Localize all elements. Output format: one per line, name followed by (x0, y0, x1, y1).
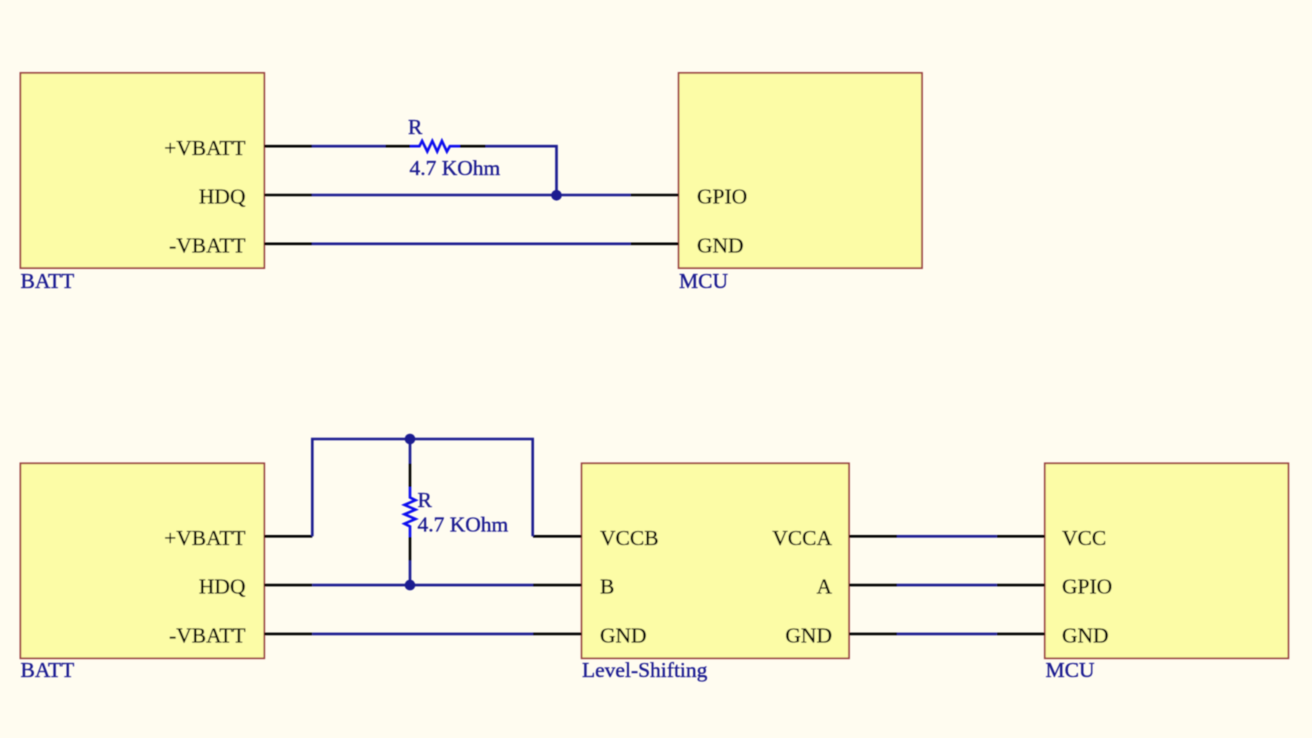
svg-text:B: B (600, 575, 614, 599)
svg-text:HDQ: HDQ (199, 185, 246, 209)
pin GND right of Level-Shifting (785, 624, 897, 648)
pin GPIO of top MCU (631, 185, 748, 209)
wire HDQ from BATT to MCU GPIO (top) (312, 194, 631, 197)
pin A of Level-Shifting (816, 575, 897, 599)
svg-text:-VBATT: -VBATT (169, 624, 245, 648)
svg-text:4.7 KOhm: 4.7 KOhm (410, 156, 501, 180)
resistor R (bottom, 4.7 KOhm, vertical) (405, 464, 416, 561)
svg-text:R: R (418, 488, 433, 512)
block BATT (top circuit) (20, 73, 264, 268)
wire resistor bottom stub (bottom) (409, 561, 412, 586)
block Level-Shifting (bottom circuit) (582, 463, 849, 658)
wire -VBATT to GND (bottom left) (312, 633, 533, 636)
svg-text:GPIO: GPIO (697, 185, 747, 209)
svg-text:GND: GND (785, 624, 832, 648)
wire VCCA to VCC (bottom right) (897, 535, 997, 538)
svg-text:HDQ: HDQ (199, 575, 246, 599)
junction node on top rail (bottom) (405, 434, 416, 445)
svg-text:R: R (408, 115, 423, 139)
svg-text:GPIO: GPIO (1062, 575, 1112, 599)
pin GND left of Level-Shifting (533, 624, 647, 648)
pin GND of bottom MCU (997, 624, 1109, 648)
resistor R (top, 4.7 KOhm) (386, 141, 486, 152)
svg-text:4.7 KOhm: 4.7 KOhm (418, 513, 509, 537)
svg-text:+VBATT: +VBATT (164, 526, 245, 550)
wire resistor to corner down to HDQ node (top) (486, 146, 557, 195)
block MCU (bottom circuit) (1045, 463, 1289, 658)
wire resistor top stub (bottom) (409, 439, 412, 464)
svg-text:BATT: BATT (21, 269, 75, 293)
svg-text:GND: GND (1062, 624, 1109, 648)
svg-text:+VBATT: +VBATT (164, 136, 245, 160)
wire +VBATT to resistor (top) (312, 145, 386, 148)
junction node on HDQ (bottom) (405, 580, 416, 591)
svg-text:GND: GND (600, 624, 647, 648)
pin B of Level-Shifting (533, 575, 614, 599)
wire A to GPIO (bottom right) (897, 584, 997, 587)
pin VCC of bottom MCU (997, 526, 1106, 550)
svg-text:BATT: BATT (21, 658, 75, 682)
pin +VBATT of top BATT (164, 136, 312, 160)
svg-text:VCCB: VCCB (600, 526, 659, 550)
pin HDQ of top BATT (199, 185, 312, 209)
pin -VBATT of top BATT (169, 233, 312, 257)
block BATT (bottom circuit) (20, 463, 264, 658)
pin GPIO of bottom MCU (997, 575, 1112, 599)
svg-text:VCC: VCC (1062, 526, 1106, 550)
pin GND of top MCU (631, 233, 744, 257)
svg-text:GND: GND (697, 233, 744, 257)
svg-text:MCU: MCU (679, 269, 728, 293)
wire HDQ to B (bottom) (312, 584, 533, 587)
svg-text:A: A (816, 575, 832, 599)
svg-text:Level-Shifting: Level-Shifting (582, 658, 708, 682)
svg-text:MCU: MCU (1046, 658, 1095, 682)
pin VCCB of Level-Shifting (533, 526, 659, 550)
wire GND to GND (bottom right) (897, 633, 997, 636)
svg-text:-VBATT: -VBATT (169, 233, 245, 257)
svg-text:VCCA: VCCA (772, 526, 832, 550)
pin +VBATT of bottom BATT (164, 526, 312, 550)
junction node on HDQ (top) (551, 190, 562, 201)
block MCU (top circuit) (679, 73, 922, 268)
pin HDQ of bottom BATT (199, 575, 312, 599)
wire +VBATT up across top rail down to VCCB (bottom) (312, 439, 532, 536)
pin -VBATT of bottom BATT (169, 624, 312, 648)
pin VCCA of Level-Shifting (772, 526, 897, 550)
wire -VBATT to GND (top) (312, 243, 631, 246)
